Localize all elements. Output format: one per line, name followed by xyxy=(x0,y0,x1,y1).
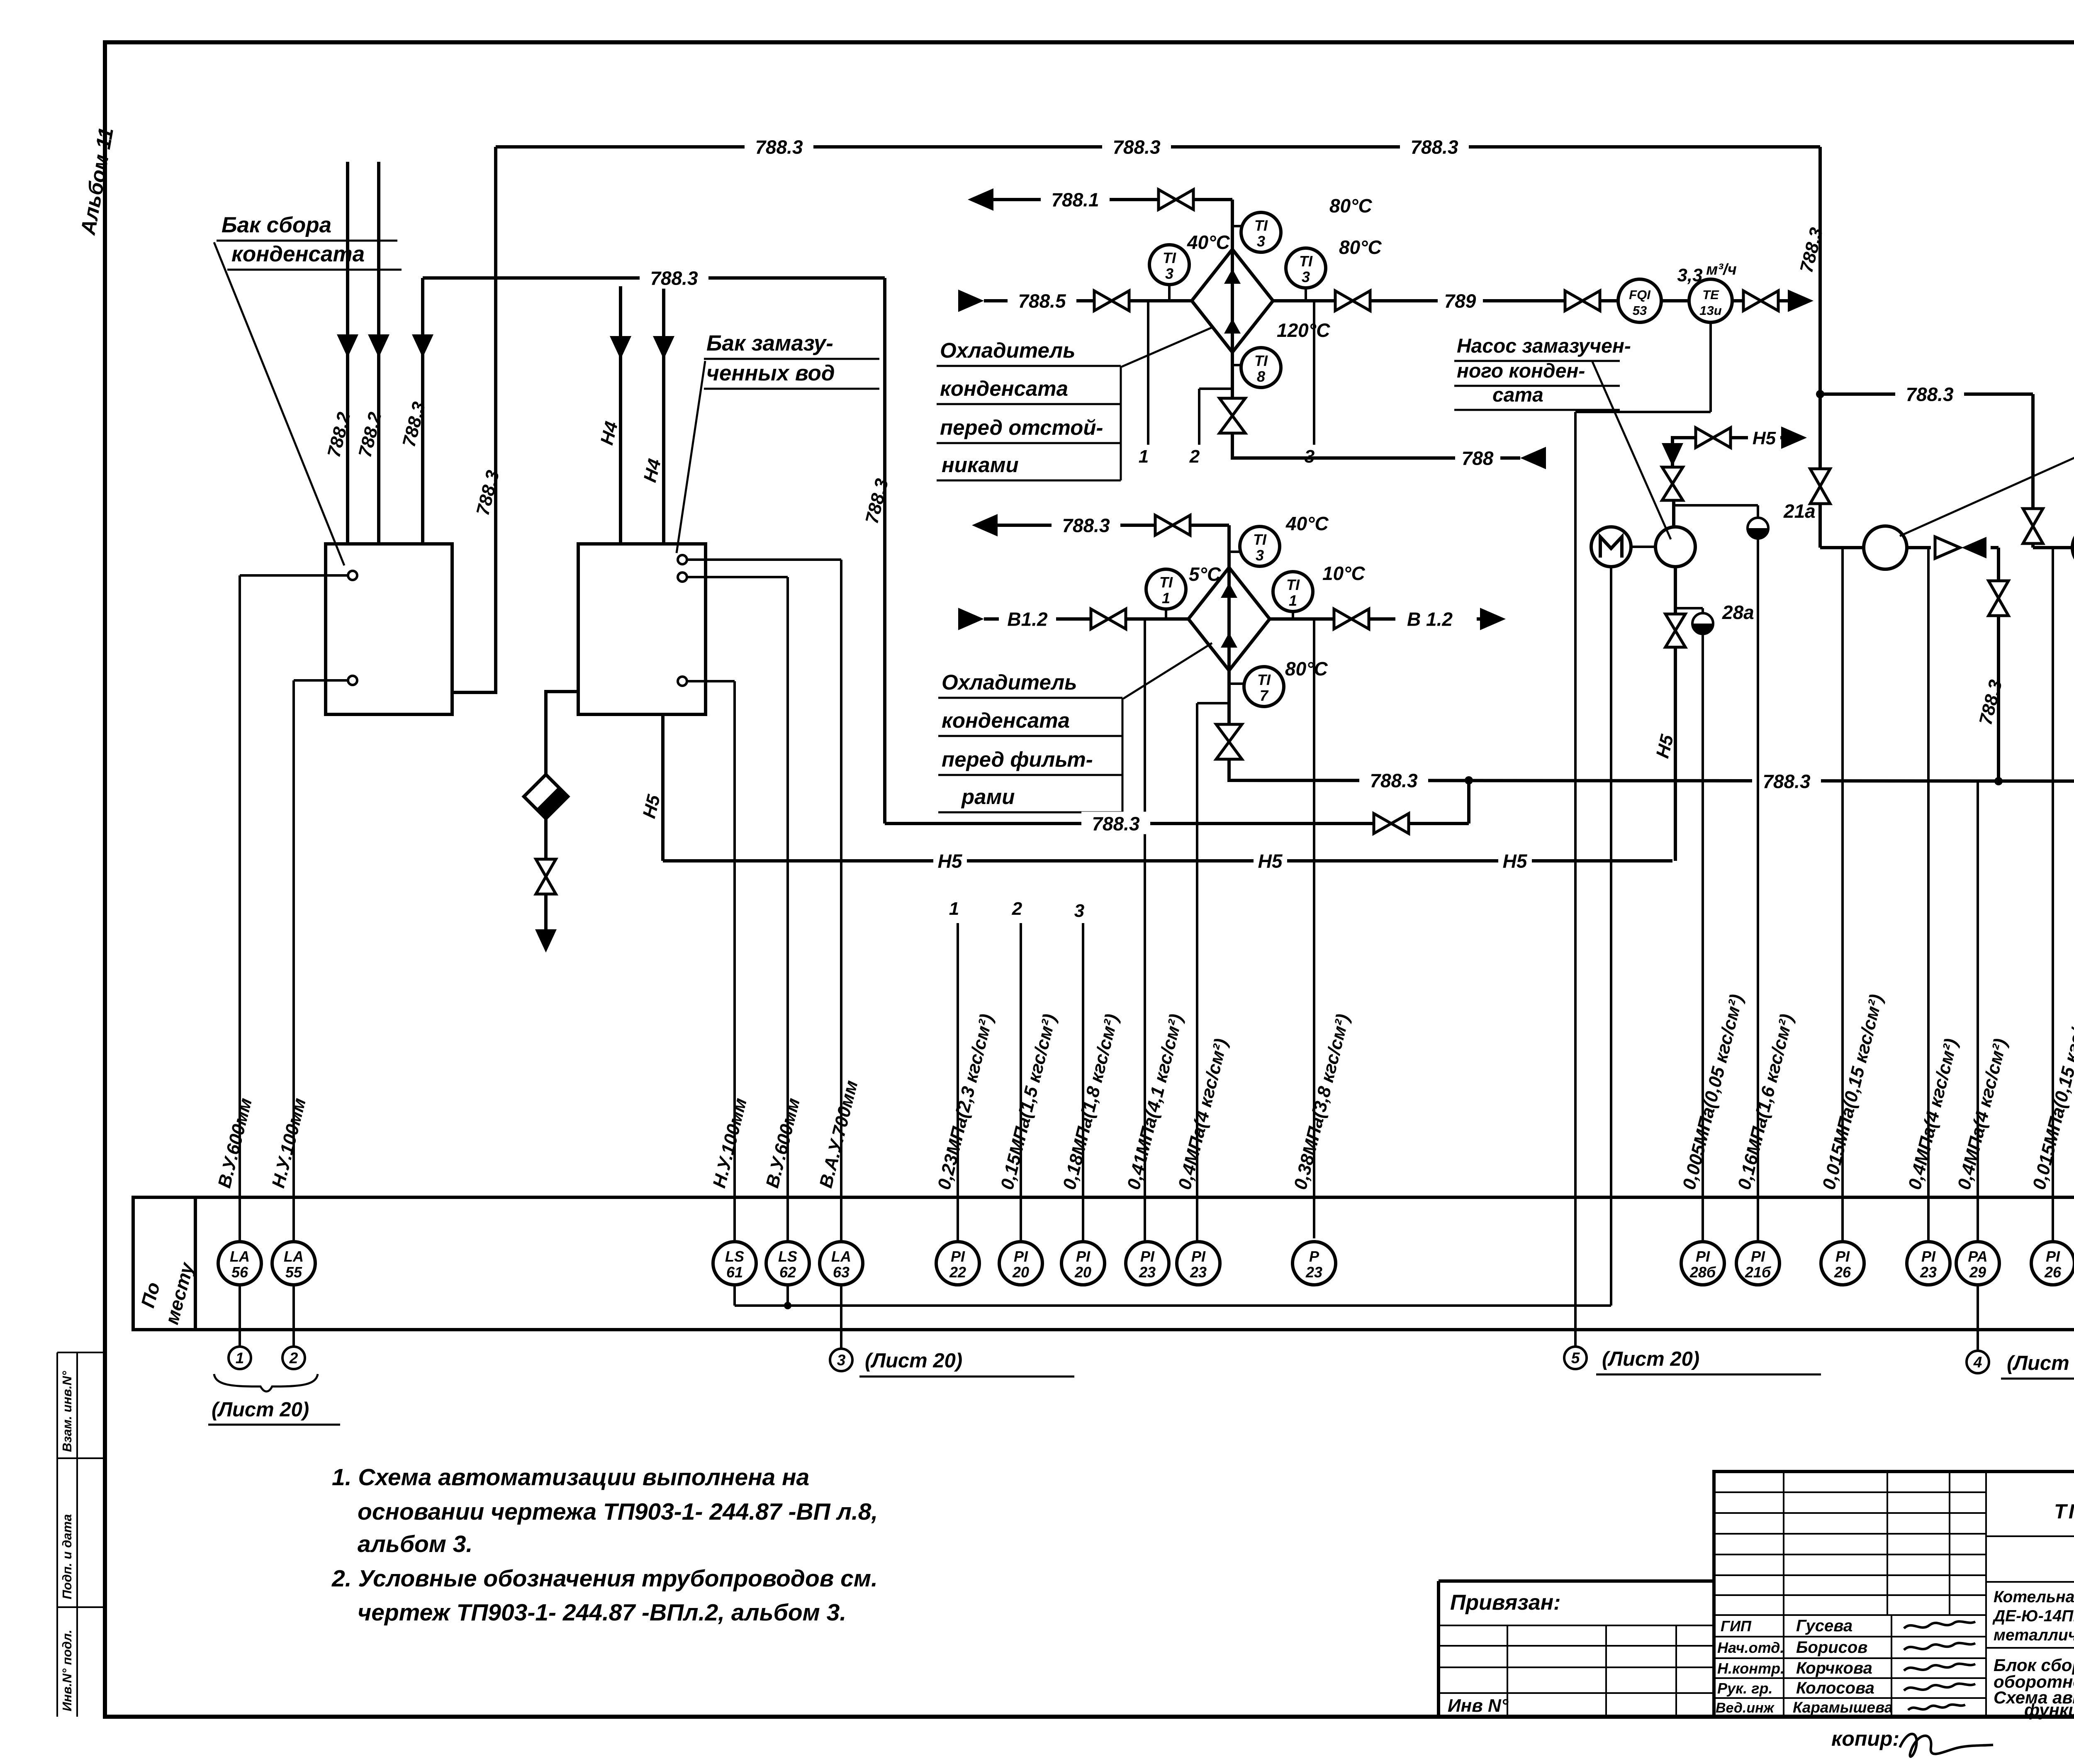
svg-text:61: 61 xyxy=(726,1264,743,1281)
flow arrow down xyxy=(610,336,631,359)
svg-text:перед фильт-: перед фильт- xyxy=(942,748,1093,771)
svg-text:29: 29 xyxy=(1969,1264,1986,1281)
divider above project name xyxy=(1986,1581,2074,1583)
pipe 788.2 inlet A xyxy=(346,162,349,544)
local instruments box По месту xyxy=(133,1197,2074,1330)
flow meter FQI 53 xyxy=(1618,279,1661,322)
svg-text:7: 7 xyxy=(1260,687,1269,704)
svg-text:4: 4 xyxy=(1973,1354,1982,1371)
pipe label Т88.3 right xyxy=(1752,769,1821,792)
valve on 789 xyxy=(1335,291,1353,311)
svg-text:LA: LA xyxy=(284,1248,304,1265)
svg-text:Н5: Н5 xyxy=(1258,850,1283,872)
svg-text:28а: 28а xyxy=(1722,602,1754,623)
svg-text:PI: PI xyxy=(1835,1248,1850,1265)
junction node xyxy=(784,1302,791,1309)
exchanger2 center pipe xyxy=(1227,568,1231,703)
pipe label 789 xyxy=(1438,289,1483,311)
svg-text:чертеж ТП903-1- 244.87 -: чертеж ТП903-1- 244.87 -ВПл.2, альбом 3. xyxy=(358,1599,846,1626)
valve on drain xyxy=(536,859,556,877)
tank2 drain to filter xyxy=(546,692,578,775)
svg-text:40°C: 40°C xyxy=(1285,513,1329,534)
title block name rows xyxy=(1714,1614,1986,1616)
instrument PI 22 xyxy=(936,1242,979,1285)
svg-text:Н5: Н5 xyxy=(938,850,963,872)
svg-text:ДЕ-Ю-14ПМ. Здание из легких: ДЕ-Ю-14ПМ. Здание из легких xyxy=(1992,1607,2074,1625)
pipe 788.5 inlet xyxy=(958,290,984,312)
control valve below exchanger2 xyxy=(1227,703,1231,725)
svg-text:788.3: 788.3 xyxy=(1762,771,1811,792)
pipe label В1.2 xyxy=(999,607,1056,629)
svg-text:(Лист 20): (Лист 20) xyxy=(212,1399,309,1421)
pipe 788.2 inlet B xyxy=(377,162,380,544)
flow arrow up in exchanger xyxy=(1224,269,1241,284)
junction node xyxy=(1816,390,1824,398)
pump1 drain to H5 header xyxy=(1674,647,1677,861)
pump2 suction horizontal xyxy=(1820,546,1865,549)
svg-text:PI: PI xyxy=(1076,1248,1091,1265)
svg-text:789: 789 xyxy=(1444,290,1476,312)
pipe H4 inlet A xyxy=(619,286,622,544)
svg-text:PI: PI xyxy=(951,1248,965,1265)
flow arrow down xyxy=(337,334,358,358)
valve on 788.5 xyxy=(1094,291,1112,311)
svg-text:28б: 28б xyxy=(1689,1264,1716,1281)
tank2 nozzle top xyxy=(678,555,687,564)
pressure tap header to PA29 xyxy=(1977,781,1979,1242)
level line tank2 bottom to LS61 xyxy=(687,680,735,682)
svg-text:Привязан:: Привязан: xyxy=(1450,1591,1560,1615)
instrument LS 61 xyxy=(713,1242,756,1285)
instrument LA 56 xyxy=(218,1242,261,1285)
svg-text:80°C: 80°C xyxy=(1329,195,1373,217)
svg-text:перед отстой-: перед отстой- xyxy=(940,416,1103,439)
svg-text:TI: TI xyxy=(1254,217,1268,234)
svg-text:PI: PI xyxy=(1696,1248,1710,1265)
pipe label 788.3 xyxy=(1081,811,1150,834)
pipe T88.3 branch header y950 xyxy=(1820,392,2033,396)
pipe B1.2 inlet xyxy=(958,608,984,630)
pipe label Т88.3 xyxy=(1895,382,1964,404)
svg-text:Подп. и дата: Подп. и дата xyxy=(60,1514,74,1599)
svg-text:23: 23 xyxy=(1920,1264,1937,1281)
heat exchanger U1 before settlers (diamond) xyxy=(1192,249,1273,352)
pump1 riser to H5 outlet xyxy=(1671,440,1674,500)
svg-text:23: 23 xyxy=(1305,1264,1322,1281)
flow arrow down xyxy=(368,334,389,358)
svg-text:3: 3 xyxy=(1165,265,1173,282)
svg-text:53: 53 xyxy=(1633,303,1647,318)
svg-text:PA: PA xyxy=(1968,1248,1987,1265)
thermometer TI 3 top (80C) xyxy=(1232,225,1242,227)
instrument PI 26 xyxy=(1821,1242,1864,1285)
connector stub 2 xyxy=(292,1285,295,1347)
svg-text:конденсата: конденсата xyxy=(942,709,1070,732)
svg-text:1: 1 xyxy=(949,899,959,919)
pressure tap pump2 suction to PI26 xyxy=(1841,548,1844,1242)
drain arrow down xyxy=(535,929,557,953)
pressure tap pump3 suction to PI26 xyxy=(2052,548,2054,1242)
branch to ball 21а xyxy=(1674,504,1758,507)
level line tank2 top to LA63 xyxy=(687,558,841,561)
signal riser 1 to PI22 xyxy=(957,923,959,1242)
svg-text:5: 5 xyxy=(1571,1350,1580,1367)
svg-text:3: 3 xyxy=(1302,268,1310,285)
pipe label Н5 xyxy=(933,849,967,871)
pipe riser above exchanger1 xyxy=(1231,200,1234,249)
svg-text:80°C: 80°C xyxy=(1339,236,1382,258)
pump1 drain down xyxy=(1674,567,1677,613)
pipe label 788.3 xyxy=(1102,135,1171,157)
svg-text:56: 56 xyxy=(231,1264,248,1281)
thermometer TI 3 left (40C) xyxy=(1168,285,1171,301)
svg-text:FQI: FQI xyxy=(1629,288,1651,302)
valve on pump2 suction xyxy=(1810,469,1830,486)
svg-text:21а: 21а xyxy=(1783,500,1816,522)
svg-text:PI: PI xyxy=(1751,1248,1765,1265)
svg-text:TI: TI xyxy=(1299,253,1313,270)
temperature element TE 13и xyxy=(1689,279,1732,322)
vortex pump 3 xyxy=(2072,526,2074,569)
svg-text:788.3: 788.3 xyxy=(1410,136,1458,158)
pipe label Н5 xyxy=(1254,849,1287,871)
pressure tap to PI23 mid xyxy=(1197,702,1229,704)
pressure tap 2 of exchanger1 xyxy=(1199,387,1232,390)
motor-pump coupling xyxy=(1631,546,1655,548)
thermometer TI 1 right (10C) xyxy=(1292,612,1294,619)
off-sheet connector 4 xyxy=(1967,1351,1989,1373)
svg-text:2: 2 xyxy=(289,1350,298,1367)
pipe label 788.3 xyxy=(1052,513,1120,536)
pipe 788.3 top header horizontal xyxy=(496,145,1820,149)
svg-text:Охладитель: Охладитель xyxy=(942,670,1077,694)
svg-text:TI: TI xyxy=(1163,249,1176,266)
svg-text:TI: TI xyxy=(1254,352,1268,369)
svg-text:ченных вод: ченных вод xyxy=(706,361,835,385)
svg-text:1. Схема автоматизации выпо: 1. Схема автоматизации выполнена на xyxy=(332,1464,809,1491)
svg-text:1: 1 xyxy=(1139,446,1149,467)
riser from lower 788.3 run xyxy=(1467,780,1470,824)
instrument PI 20 xyxy=(999,1242,1042,1285)
flow arrow down xyxy=(653,336,674,359)
svg-text:2: 2 xyxy=(1012,899,1022,919)
svg-text:20: 20 xyxy=(1012,1264,1029,1281)
off-sheet connector 2 xyxy=(282,1347,305,1369)
svg-text:м³/ч: м³/ч xyxy=(1706,261,1736,278)
pressure tap pump2 discharge to PI23 xyxy=(1927,548,1930,1242)
pressure tap 3 of exchanger1 xyxy=(1313,301,1315,445)
level line tank1 upper to LA56 xyxy=(240,574,348,577)
svg-text:Инв N°: Инв N° xyxy=(1448,1696,1509,1716)
svg-text:PI: PI xyxy=(1014,1248,1028,1265)
flow arrow down to pump xyxy=(1662,443,1683,466)
tank Бак сбора конденсата xyxy=(326,544,452,714)
svg-text:2. Условные обозначения тру: 2. Условные обозначения трубопроводов см… xyxy=(331,1565,878,1592)
svg-text:788.3: 788.3 xyxy=(1906,384,1954,405)
pipe label Т88.3 xyxy=(1359,768,1428,791)
svg-text:23: 23 xyxy=(1139,1264,1156,1281)
pipe label Т88 xyxy=(1455,446,1500,468)
svg-text:Н5: Н5 xyxy=(1753,428,1776,448)
svg-text:ГИП: ГИП xyxy=(1721,1618,1752,1635)
pipe label 788.5 xyxy=(1008,289,1076,311)
leader to tank1 xyxy=(214,242,344,565)
svg-text:копир:: копир: xyxy=(1831,1727,1899,1750)
svg-text:788.5: 788.5 xyxy=(1018,290,1066,312)
flow arrow down xyxy=(412,334,433,358)
svg-text:Корчкова: Корчкова xyxy=(1796,1659,1872,1677)
pipe 788.3 second header xyxy=(423,276,885,280)
leader to tank2 xyxy=(677,361,705,553)
thermometer TI 7 bottom (80C) xyxy=(1229,682,1244,685)
valve on В1.2 inlet xyxy=(1091,609,1108,629)
svg-text:Взам. инв.N°: Взам. инв.N° xyxy=(60,1371,74,1452)
svg-text:120°C: 120°C xyxy=(1277,319,1330,341)
svg-text:788.3: 788.3 xyxy=(1370,770,1418,792)
svg-text:788.1: 788.1 xyxy=(1051,189,1099,211)
connector stub 4 xyxy=(1977,1285,1979,1351)
svg-text:20: 20 xyxy=(1074,1264,1091,1281)
svg-text:Инв.N° подл.: Инв.N° подл. xyxy=(60,1630,74,1711)
vortex pump 2 xyxy=(1864,526,1907,569)
junction node xyxy=(1465,776,1473,785)
pipe 788.3 drop to tank1 xyxy=(421,278,424,544)
svg-text:63: 63 xyxy=(833,1264,850,1281)
svg-text:LA: LA xyxy=(230,1248,250,1265)
leader to exchanger2 xyxy=(1123,643,1212,699)
H5 branch at pump1 xyxy=(1672,438,1694,440)
svg-text:Карамышева: Карамышева xyxy=(1793,1699,1893,1716)
valve on pump2 discharge xyxy=(1989,581,2008,598)
instrument PI 28б xyxy=(1681,1242,1724,1285)
valve on pump3 suction xyxy=(2023,509,2043,526)
pressure tap to PI23 from В1.2 line xyxy=(1144,619,1146,1242)
svg-text:никами: никами xyxy=(942,453,1019,477)
svg-text:PI: PI xyxy=(1921,1248,1936,1265)
valve on pump1 drain xyxy=(1665,614,1685,631)
svg-text:LS: LS xyxy=(778,1248,797,1265)
pressure tap 1 of exchanger1 xyxy=(1147,301,1149,445)
valve on H5 branch xyxy=(1696,428,1713,448)
pipe label В 1.2 xyxy=(1395,607,1464,629)
svg-text:Бак сбора: Бак сбора xyxy=(222,213,331,237)
svg-text:(Лист 20): (Лист 20) xyxy=(2007,1352,2074,1374)
svg-text:Н.контр.: Н.контр. xyxy=(1717,1660,1784,1677)
svg-text:Н5: Н5 xyxy=(1503,850,1528,872)
thermometer TI 8 bottom (120C) xyxy=(1232,364,1242,366)
pipe 788.1 outlet xyxy=(968,188,993,211)
svg-text:рами: рами xyxy=(961,785,1015,809)
svg-text:основании чертежа ТП903-1- 24: основании чертежа ТП903-1- 244.87 -ВП л.… xyxy=(358,1498,878,1525)
svg-text:2: 2 xyxy=(1189,446,1200,467)
svg-text:5°C: 5°C xyxy=(1189,563,1221,585)
pipe 788.3 lower run xyxy=(885,822,1373,825)
pump насос замазученного конденсата xyxy=(1655,527,1695,567)
valve on 789 outlet xyxy=(1743,291,1761,311)
instrument PI 21б xyxy=(1736,1242,1779,1285)
svg-text:Рук. гр.: Рук. гр. xyxy=(1717,1680,1773,1697)
left stamp column box xyxy=(56,1352,58,1717)
instrument PI 26 xyxy=(2031,1242,2074,1285)
pump motor M xyxy=(1591,527,1631,567)
pipe B1.2 outlet xyxy=(1270,617,1333,621)
svg-text:металлических конструкций: металлических конструкций xyxy=(1994,1626,2074,1644)
pipe 788 blowdown xyxy=(1232,432,1520,458)
pipe H5 drain from tank2 xyxy=(661,714,665,861)
pipe label 788.3 xyxy=(640,266,708,288)
svg-text:ТП 903-1-244.87: ТП 903-1-244.87 xyxy=(2054,1501,2074,1523)
pipe H4 inlet B xyxy=(662,286,665,544)
svg-text:62: 62 xyxy=(779,1264,796,1281)
svg-text:PI: PI xyxy=(2046,1248,2060,1265)
pipe H5 long drain header xyxy=(663,859,1672,863)
instrument PI 23 xyxy=(1907,1242,1950,1285)
pipe 788.3 drop to lower run xyxy=(883,278,886,824)
signal to PI 28б xyxy=(1702,633,1704,1242)
pipe T88.3 drain header from exchanger2 xyxy=(1229,758,2074,781)
sampling ball 21а xyxy=(1748,518,1768,538)
filter on tank2 drain (diamond half filled) xyxy=(524,775,568,819)
title block upper grid columns xyxy=(1783,1472,1784,1717)
svg-text:1: 1 xyxy=(236,1350,244,1367)
instrument PA 29 xyxy=(1956,1242,1999,1285)
svg-text:1: 1 xyxy=(1289,592,1297,609)
brace under connectors 1-2 xyxy=(214,1374,318,1391)
svg-text:LA: LA xyxy=(831,1248,851,1265)
tank1 nozzle lower xyxy=(348,676,357,685)
valve on lower 788.3 xyxy=(1374,814,1391,833)
attachment box Привязан xyxy=(1439,1579,1714,1583)
tank2 nozzle middle xyxy=(678,573,687,582)
flow arrow on 788 xyxy=(1520,447,1546,469)
heat exchanger U2 before filters (diamond) xyxy=(1188,568,1270,670)
svg-text:1: 1 xyxy=(1162,590,1170,607)
connector stub 3 xyxy=(840,1285,842,1349)
LS61 LS62 interlock bus to motor xyxy=(733,1285,736,1306)
svg-text:26: 26 xyxy=(2044,1264,2062,1281)
svg-text:TI: TI xyxy=(1286,576,1300,593)
svg-text:3: 3 xyxy=(837,1352,846,1369)
title block upper grid rows xyxy=(1714,1491,1986,1493)
svg-text:Насос замазучен-: Насос замазучен- xyxy=(1457,335,1631,357)
exchanger1 center pipe xyxy=(1231,249,1234,389)
signal riser 2 to PI20 xyxy=(1020,923,1022,1242)
pump3 suction drop xyxy=(2031,394,2035,508)
svg-text:P: P xyxy=(1309,1248,1319,1265)
svg-text:Гусева: Гусева xyxy=(1796,1617,1852,1635)
pressure tap to P23 xyxy=(1313,619,1315,1238)
junction node xyxy=(1994,777,2003,785)
svg-text:Колосова: Колосова xyxy=(1796,1679,1874,1697)
check valve pump2 xyxy=(1935,537,1960,558)
svg-text:Борисов: Борисов xyxy=(1796,1638,1867,1657)
connector pipe xyxy=(1661,299,1689,302)
pipe 788.3 right drop to pumps xyxy=(1818,147,1822,468)
instrument PI 23 xyxy=(1177,1242,1220,1285)
svg-text:LS: LS xyxy=(725,1248,744,1265)
svg-text:TE: TE xyxy=(1702,288,1719,302)
off-sheet connector 3 xyxy=(830,1349,852,1371)
motor control signal down to LS bus xyxy=(1610,567,1612,1306)
riser above exchanger2 xyxy=(1227,525,1231,568)
svg-text:TI: TI xyxy=(1159,574,1173,591)
instrument PI 20 xyxy=(1061,1242,1105,1285)
tank Бак замазученных вод xyxy=(578,544,706,714)
valve before flowmeter xyxy=(1565,291,1582,311)
connector stub 1 xyxy=(239,1285,241,1347)
svg-text:сата: сата xyxy=(1492,384,1543,406)
svg-text:788: 788 xyxy=(1462,448,1494,469)
flow arrow up in exchanger2 xyxy=(1221,633,1237,648)
valve on В1.2 outlet xyxy=(1334,609,1351,629)
drain pipe below filter xyxy=(544,819,548,859)
tank2 nozzle bottom xyxy=(678,677,687,686)
svg-text:40°C: 40°C xyxy=(1187,231,1230,253)
svg-text:TI: TI xyxy=(1257,671,1271,688)
pipe label 788.3 xyxy=(1400,135,1469,157)
svg-text:788.3: 788.3 xyxy=(650,268,698,289)
svg-text:PI: PI xyxy=(1140,1248,1155,1265)
svg-text:10°C: 10°C xyxy=(1322,563,1366,584)
svg-text:3: 3 xyxy=(1257,233,1265,250)
svg-text:80°C: 80°C xyxy=(1285,658,1328,680)
svg-text:23: 23 xyxy=(1190,1264,1207,1281)
svg-text:Вед.инж: Вед.инж xyxy=(1716,1700,1775,1716)
svg-text:13и: 13и xyxy=(1699,303,1721,318)
svg-text:788.3: 788.3 xyxy=(755,136,803,158)
svg-text:26: 26 xyxy=(1834,1264,1851,1281)
sampling ball 28а xyxy=(1692,613,1713,634)
pipe 789 from exchanger1 xyxy=(1273,299,1334,302)
instrument P 23 xyxy=(1293,1242,1336,1285)
svg-text:3: 3 xyxy=(1074,901,1084,921)
tank1 nozzle upper xyxy=(348,571,357,580)
flow arrow up in exchanger xyxy=(1224,319,1241,334)
off-sheet connector 5 xyxy=(1564,1347,1587,1369)
svg-text:788.3: 788.3 xyxy=(1062,515,1110,536)
svg-text:788.3: 788.3 xyxy=(1112,136,1161,158)
svg-text:788.3: 788.3 xyxy=(1092,813,1140,835)
svg-text:функциональная.: функциональная. xyxy=(2024,1700,2074,1720)
svg-text:3,3: 3,3 xyxy=(1677,265,1702,285)
flow arrow out xyxy=(1788,290,1814,312)
leader to exchanger1 xyxy=(1122,327,1213,367)
signal riser 3 to PI20 xyxy=(1082,923,1084,1242)
branch to ball 28а xyxy=(1675,607,1703,609)
svg-text:Нач.отд.: Нач.отд. xyxy=(1717,1639,1784,1656)
name column divider xyxy=(1891,1615,1892,1717)
pipe 788.3 return drop to tank1 xyxy=(452,147,496,692)
flow arrow out В1.2 xyxy=(1480,608,1506,630)
instrument LA 55 xyxy=(272,1242,315,1285)
svg-text:8: 8 xyxy=(1257,368,1265,385)
svg-text:55: 55 xyxy=(285,1264,302,1281)
svg-text:конденсата: конденсата xyxy=(940,377,1068,400)
svg-text:22: 22 xyxy=(949,1264,966,1281)
valve on 788.1 xyxy=(1159,190,1176,210)
svg-text:В 1.2: В 1.2 xyxy=(1407,609,1453,630)
valve on 788.3 outlet xyxy=(1155,515,1173,535)
svg-text:конденсата: конденсата xyxy=(231,242,365,266)
svg-text:21б: 21б xyxy=(1745,1264,1772,1281)
flow arrow up in exchanger2 xyxy=(1221,583,1237,598)
control valve below exchanger1 xyxy=(1231,389,1234,399)
svg-text:Охладитель: Охладитель xyxy=(940,339,1075,362)
signal to PI 21б xyxy=(1757,538,1759,1242)
pump2 discharge drop xyxy=(1997,548,2000,580)
leader to pump1 xyxy=(1592,362,1671,539)
svg-text:PI: PI xyxy=(1191,1248,1206,1265)
